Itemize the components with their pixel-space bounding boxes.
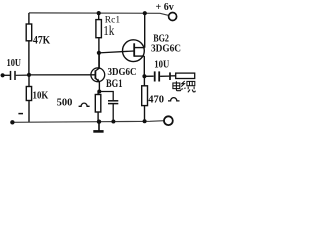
node C emitter node dot bbox=[97, 90, 101, 94]
wire BG1 emitter lead bbox=[98, 82, 100, 92]
wire emitter node to bypass cap bbox=[99, 92, 113, 101]
wire output cap to connector bbox=[160, 75, 169, 77]
resistor R3 500 bbox=[95, 95, 101, 113]
capacitor C3 10U output bbox=[154, 71, 156, 81]
node top rail junction at Rc1 bbox=[97, 11, 101, 15]
wire top supply rail bbox=[29, 13, 169, 16]
wire emitter node to output cap bbox=[144, 75, 153, 77]
wire plug bar to cable body bbox=[170, 75, 176, 77]
svg-text:3DG6C: 3DG6C bbox=[151, 43, 181, 54]
svg-text:10U: 10U bbox=[7, 58, 22, 69]
label cable chinese dian bbox=[173, 81, 181, 91]
wire cap to node A bbox=[16, 74, 29, 76]
node ground rail dot at 500 bbox=[97, 120, 101, 124]
wire node A to 10K bbox=[28, 75, 30, 87]
node A base node dot bbox=[27, 73, 31, 77]
resistor R4 470 bbox=[142, 86, 148, 106]
node rail dot at 470 bbox=[143, 119, 147, 123]
node rail dot at bypass cap bbox=[111, 120, 115, 124]
capacitor C1 10U input bbox=[10, 71, 12, 80]
node top rail junction at BG2 bbox=[143, 11, 147, 15]
wire BG2 emitter lead bbox=[143, 56, 145, 76]
svg-text:BG1: BG1 bbox=[106, 78, 123, 90]
wire BG1 base lead bbox=[29, 74, 95, 76]
wire emitter node to 500 resistor bbox=[97, 92, 99, 95]
connector plug bar bbox=[169, 72, 171, 80]
wire Rc1 bottom to node B bbox=[98, 38, 100, 68]
wire 47K bottom lead to node A bbox=[28, 41, 30, 75]
svg-text:+ 6v: + 6v bbox=[156, 2, 174, 13]
terminal bottom-right bbox=[164, 116, 173, 125]
wire 47K top lead bbox=[28, 13, 30, 24]
label cable chinese lan bbox=[181, 81, 195, 92]
cable body rectangle bbox=[176, 73, 195, 78]
resistor R2 10K bbox=[26, 87, 31, 101]
svg-text:1k: 1k bbox=[103, 24, 114, 39]
transistor Q2 BG2 3DG6C bbox=[122, 40, 144, 62]
wire 470 bottom to rail bbox=[144, 106, 146, 122]
wire 500 bottom to rail bbox=[97, 112, 99, 122]
label minus sign bbox=[18, 113, 23, 115]
label ohm 470 bbox=[168, 98, 180, 101]
ground bbox=[98, 122, 100, 131]
wire emitter node to 470 bbox=[143, 76, 145, 86]
wire BG1 collector lead bbox=[98, 53, 100, 68]
svg-text:470: 470 bbox=[148, 94, 164, 105]
node B collector-base coupling dot bbox=[97, 51, 101, 55]
capacitor C2 bypass bbox=[108, 100, 118, 102]
label ohm 500 bbox=[79, 103, 90, 106]
node D emitter node of BG2 bbox=[142, 74, 146, 78]
svg-text:3DG6C: 3DG6C bbox=[108, 67, 137, 78]
wire bottom ground rail bbox=[12, 121, 164, 123]
svg-text:10K: 10K bbox=[33, 90, 49, 102]
svg-text:500: 500 bbox=[57, 97, 73, 108]
wire input to cap bbox=[3, 74, 10, 76]
wire bypass cap to rail bbox=[112, 104, 114, 122]
terminal bottom-left dot bbox=[10, 120, 14, 124]
resistor R1 47K bbox=[26, 24, 32, 41]
terminal input dot bbox=[1, 73, 5, 77]
svg-text:47K: 47K bbox=[33, 35, 50, 47]
wire 10K bottom to ground rail bbox=[28, 101, 30, 123]
wire BG2 collector lead bbox=[144, 13, 146, 48]
wire Rc1 top lead bbox=[98, 13, 100, 20]
resistor Rc1 1k bbox=[96, 20, 102, 38]
svg-text:10U: 10U bbox=[154, 59, 169, 70]
terminal +6v bbox=[169, 13, 177, 21]
wire node B to BG2 base bbox=[99, 51, 134, 53]
transistor Q1 BG1 3DG6C bbox=[91, 68, 105, 83]
